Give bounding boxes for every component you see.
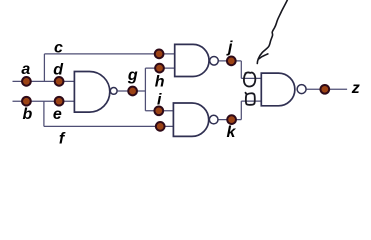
wire net f (horizontal) <box>44 125 174 127</box>
wire net k output <box>219 119 242 121</box>
svg-text:a: a <box>21 61 30 78</box>
node i <box>154 106 163 115</box>
node j <box>227 57 236 66</box>
svg-text:h: h <box>155 74 165 91</box>
wire input a stub <box>13 80 75 82</box>
node h <box>155 64 164 73</box>
node g <box>128 87 137 96</box>
svg-text:c: c <box>54 40 63 57</box>
svg-text:i: i <box>157 92 162 109</box>
svg-text:e: e <box>53 106 62 123</box>
svg-text:d: d <box>53 61 64 78</box>
wire branch a to c (vertical) <box>43 54 45 82</box>
svg-text:z: z <box>351 80 360 97</box>
node b <box>22 97 31 106</box>
node k <box>227 115 236 124</box>
NAND gate U3 body <box>173 103 208 136</box>
node a <box>22 77 31 86</box>
wire k vertical rise <box>240 101 242 120</box>
svg-text:k: k <box>227 124 237 141</box>
wire k into U4 <box>241 100 261 102</box>
node d <box>55 77 64 86</box>
annotation hand-drawn arrow <box>257 0 288 64</box>
node f <box>156 122 165 131</box>
NAND gate U4 body <box>261 73 295 106</box>
wire net z output <box>307 88 348 90</box>
wire net j output <box>219 60 242 62</box>
svg-text:b: b <box>23 106 33 123</box>
annotation scribble bubble on j input <box>244 72 255 86</box>
wire j into U4 <box>241 77 261 79</box>
svg-text:f: f <box>59 131 66 148</box>
wire j vertical drop <box>240 61 242 79</box>
wire branch b to f (vertical) <box>43 101 45 126</box>
node e <box>55 97 64 106</box>
wire net h <box>145 67 174 69</box>
wire net i <box>145 110 173 112</box>
annotation scribble bubble on k input <box>246 93 255 105</box>
svg-text:j: j <box>226 39 233 56</box>
NAND gate U3 bubble <box>209 115 218 124</box>
NAND gate U4 bubble <box>297 85 306 94</box>
NAND gate U1 bubble <box>110 88 117 95</box>
NAND gate U2 bubble <box>210 57 219 66</box>
NAND gate U1 body <box>74 72 109 113</box>
NAND gate U2 body <box>175 44 209 76</box>
svg-text:g: g <box>127 67 138 84</box>
wire g splitter vertical <box>144 68 146 111</box>
node c <box>155 50 164 59</box>
wire net c (horizontal) <box>44 53 174 55</box>
annotation arrowhead barb <box>259 54 268 59</box>
node z <box>320 85 329 94</box>
wire input b stub <box>13 100 75 102</box>
wire net g output <box>118 90 146 92</box>
